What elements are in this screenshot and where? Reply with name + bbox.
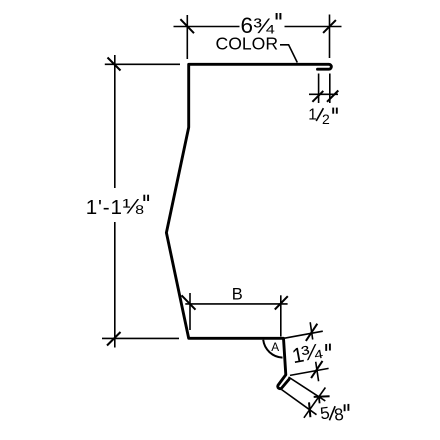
dimension 1-3/4: tick lower bbox=[311, 361, 322, 378]
dimension B: extension line left bbox=[189, 293, 191, 330]
svg-text:⅛: ⅛ bbox=[122, 194, 144, 218]
angle A arc bbox=[263, 340, 282, 358]
svg-text:B: B bbox=[232, 285, 243, 303]
dimension 5/8: extension line upper bbox=[289, 377, 326, 401]
dimension 1/2: extension line right bbox=[329, 74, 331, 104]
dimension text 1'-1 1/8" bbox=[86, 194, 148, 219]
dimension 1/2: dim line bbox=[309, 93, 338, 95]
dimension 5/8: tick upper (horizontal slash) bbox=[314, 395, 330, 398]
dimension 1/2: tick left bbox=[312, 91, 323, 102]
dimension 5/8: tick lower (vertical slash) bbox=[309, 402, 310, 417]
dimension text 6-3/4" bbox=[241, 13, 281, 38]
dimension B: dim line bbox=[185, 303, 287, 305]
dimension 1-3/4: dim line upper segment bbox=[310, 322, 313, 339]
svg-text:COLOR: COLOR bbox=[216, 33, 279, 53]
dimension 1-3/4: inch marks bbox=[325, 344, 327, 351]
dimension 1ft 1-1/8: tick top bbox=[108, 58, 121, 71]
dimension 1-3/4: dim line lower segment bbox=[316, 362, 319, 382]
dimension B: tick left bbox=[182, 295, 196, 309]
dimension 1ft 1-1/8: extension line bottom bbox=[102, 337, 179, 339]
dimension 1/2: extension line left bbox=[318, 74, 320, 104]
dimension 6-3/4: dim line left segment bbox=[174, 26, 240, 28]
dimension 6-3/4: extension line left bbox=[186, 15, 188, 59]
dimension 1ft 1-1/8: dim line top segment bbox=[114, 55, 116, 188]
COLOR leader bbox=[280, 45, 297, 63]
dimension 1-3/4: tick upper bbox=[306, 324, 317, 341]
dimension text 1/2" bbox=[308, 107, 337, 128]
dimension 1-3/4: extension line upper bbox=[285, 331, 323, 338]
dimension B: extension line right bbox=[280, 295, 282, 336]
dimension 1/2: tick right bbox=[327, 91, 338, 102]
svg-text:A: A bbox=[271, 340, 279, 354]
dimension text 5/8" (tilted) bbox=[319, 402, 345, 427]
dimension 1-3/4: extension line lower bbox=[290, 368, 329, 375]
dimension 6-3/4: extension line right bbox=[329, 15, 331, 59]
dimension 6-3/4: dim line right segment bbox=[285, 26, 342, 28]
dimension 1ft 1-1/8: tick bottom bbox=[107, 332, 121, 346]
dimension 5/8: inch marks bbox=[344, 404, 346, 411]
dimension 5/8: tick upper small vertical mark bbox=[318, 397, 321, 404]
svg-text:2: 2 bbox=[322, 111, 330, 127]
dimension 6-3/4: tick left bbox=[180, 19, 194, 33]
dimension 5/8: dim line bbox=[304, 388, 326, 418]
dimension 1ft 1-1/8: dim line bottom segment bbox=[114, 222, 116, 348]
dimension 1ft 1-1/8: extension line top bbox=[105, 63, 180, 65]
svg-text:1: 1 bbox=[308, 107, 317, 124]
trim profile outline bbox=[166, 64, 331, 388]
dimension 5/8: extension line lower bbox=[282, 390, 317, 415]
dimension 6-3/4: tick right bbox=[323, 20, 336, 33]
dimension B: tick right bbox=[275, 296, 288, 309]
svg-text:1'-1: 1'-1 bbox=[86, 196, 123, 219]
dimension text 1-3/4" (tilted) bbox=[290, 338, 325, 368]
